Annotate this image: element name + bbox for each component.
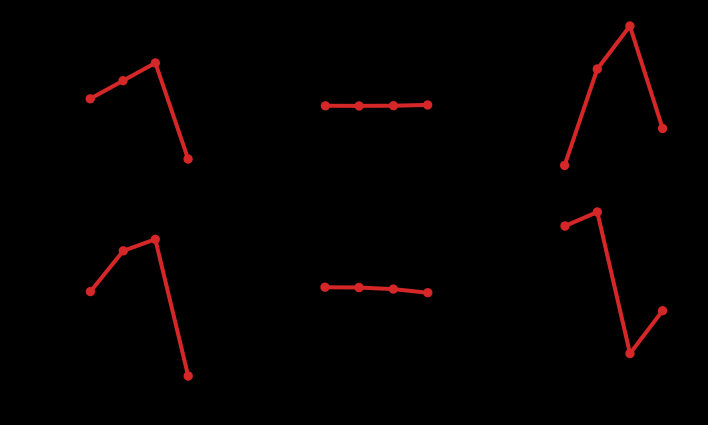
bottom-middle sparkline series: [320, 283, 432, 298]
bottom-left sparkline series: [86, 235, 193, 381]
top-right sparkline series: [560, 21, 667, 170]
bottom-right sparkline series: [560, 207, 667, 358]
top-left sparkline series: [86, 58, 193, 164]
top-middle sparkline series: [321, 100, 433, 110]
